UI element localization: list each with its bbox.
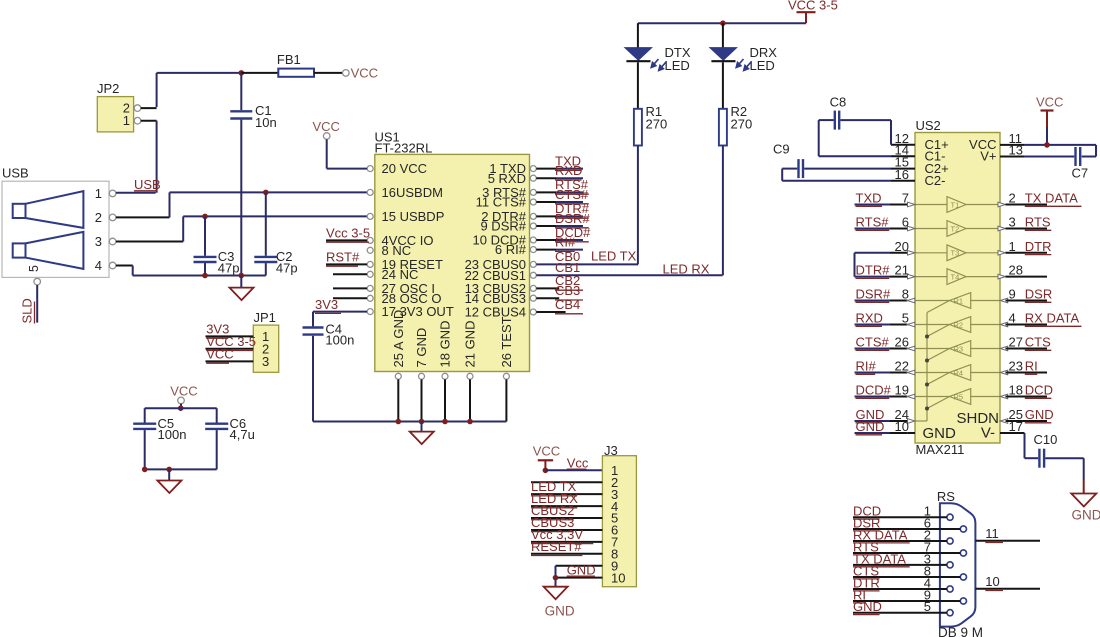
svg-text:10: 10 <box>611 570 625 585</box>
ground bus under US1 <box>313 421 506 423</box>
svg-text:26 TEST: 26 TEST <box>499 316 514 367</box>
net label RST# on US1 pin19 <box>326 250 367 267</box>
US2 pin 9 stub net DSR <box>1000 287 1052 303</box>
net label LED TX <box>591 249 637 264</box>
ferrite bead FB1 <box>277 52 314 77</box>
svg-text:GND: GND <box>1072 508 1100 523</box>
US2 transmitter T4 <box>915 269 1000 285</box>
svg-text:24 NC: 24 NC <box>382 267 419 282</box>
US2 pin 12 wire <box>841 120 916 146</box>
svg-text:RTS#: RTS# <box>856 215 890 230</box>
wire rail to FB1 <box>241 72 278 74</box>
US2 pin 8 stub net DSR# <box>855 287 915 303</box>
svg-text:10: 10 <box>985 574 999 589</box>
junction at C1 top <box>239 70 245 76</box>
svg-text:CTS#: CTS# <box>856 335 890 350</box>
svg-text:C10: C10 <box>1034 432 1058 447</box>
svg-text:Vcc: Vcc <box>567 455 589 470</box>
DB9 pin 5 wire net GND <box>853 599 947 615</box>
svg-text:DCD: DCD <box>1025 383 1053 398</box>
svg-text:LED: LED <box>665 58 690 73</box>
US2 pin 18 stub net DCD <box>1000 383 1053 399</box>
net label USB <box>134 177 161 192</box>
svg-text:DTR: DTR <box>1025 239 1052 254</box>
capacitor C7 <box>1072 147 1089 181</box>
US2 transmitter T1 <box>915 197 1000 213</box>
wire USB pin4 to ground bus <box>116 266 266 276</box>
svg-text:C2-: C2- <box>925 173 946 188</box>
svg-text:4,7u: 4,7u <box>230 427 255 442</box>
supply VCC at US1 pin20 <box>313 119 340 139</box>
net label SLD <box>20 298 35 323</box>
svg-text:R2: R2 <box>954 320 964 329</box>
svg-text:R1: R1 <box>954 296 964 305</box>
svg-text:4: 4 <box>95 258 102 273</box>
US2 pin 19 stub net DCD# <box>855 383 915 399</box>
USB pin 5 shield <box>34 278 41 285</box>
svg-text:MAX211: MAX211 <box>916 442 965 457</box>
junction VCC C5C6 <box>178 405 184 411</box>
USB pin 3 <box>95 234 116 249</box>
DB9 pin circles right column <box>960 526 966 604</box>
svg-text:8 NC: 8 NC <box>382 243 412 258</box>
svg-text:GND: GND <box>856 419 885 434</box>
DB9 pin 10 stub <box>975 574 1040 590</box>
net stub DTR# <box>536 201 589 218</box>
svg-text:5: 5 <box>27 265 41 272</box>
svg-text:VCC: VCC <box>313 119 340 134</box>
svg-text:V+: V+ <box>980 149 996 164</box>
svg-text:GND: GND <box>1025 407 1054 422</box>
jumper JP1 <box>253 310 278 372</box>
US2 pin 21 stub net DTR# <box>855 263 916 279</box>
net label Vcc 3,3V at J3 pin7 <box>531 527 593 544</box>
svg-text:VCC: VCC <box>351 66 378 81</box>
wire SLD from USB pin 5 <box>36 285 38 323</box>
net stub CB4 <box>536 297 583 314</box>
svg-text:5: 5 <box>924 599 931 614</box>
svg-text:C9: C9 <box>773 142 790 157</box>
svg-text:11 CTS#: 11 CTS# <box>476 195 527 210</box>
junction C3 at ground bus <box>202 273 208 279</box>
svg-text:DTR#: DTR# <box>856 263 891 278</box>
svg-text:VCC: VCC <box>533 444 560 459</box>
stub US1 pin24 <box>333 273 367 275</box>
svg-text:RI: RI <box>1025 359 1038 374</box>
svg-text:5 RXD: 5 RXD <box>488 171 526 186</box>
US2 pin 5 stub net RXD <box>855 311 915 327</box>
svg-text:26: 26 <box>895 335 909 350</box>
US1 left pin names <box>382 161 454 319</box>
svg-text:270: 270 <box>646 116 668 131</box>
junction bottom rail gnd <box>166 467 172 473</box>
US2 pin 22 stub net RI# <box>855 359 915 375</box>
net stub 3V3 on JP1 pin1 <box>206 322 254 339</box>
US2 pin 15 wire <box>804 155 915 170</box>
net label GND at J3 <box>567 562 596 577</box>
wire FB1 to VCC <box>314 72 343 74</box>
US2 internal junction 3 <box>925 383 929 387</box>
US2 pin 3 stub net RTS <box>998 215 1051 231</box>
svg-text:GND: GND <box>567 562 596 577</box>
svg-text:14 CBUS3: 14 CBUS3 <box>465 291 526 306</box>
net label RESET# at J3 pin8 <box>531 539 582 556</box>
svg-text:3: 3 <box>262 354 269 369</box>
wire C10 to ground <box>1045 458 1083 493</box>
net stub RI# <box>536 234 583 251</box>
svg-text:25 A GND: 25 A GND <box>391 310 406 368</box>
svg-text:270: 270 <box>731 116 753 131</box>
USB symbol horns <box>13 191 84 272</box>
US2 pin 20 stub <box>855 239 916 255</box>
net label LED RX <box>663 262 710 277</box>
DB9 pin 11 stub <box>975 526 1040 542</box>
net label Vcc 3-5 on US1 pin4 <box>326 226 370 243</box>
DB9 pin circles left column <box>947 514 953 616</box>
ground symbol under US1 <box>410 422 434 445</box>
USB connector J-USB body <box>2 166 109 278</box>
capacitor C2 47p <box>254 192 297 275</box>
US2 inside pin names bottom <box>923 410 1000 442</box>
svg-text:1: 1 <box>1009 239 1016 254</box>
IC US2 MAX211 body <box>915 118 1000 457</box>
svg-text:9 DSR#: 9 DSR# <box>480 219 526 234</box>
svg-text:DB 9 M: DB 9 M <box>938 625 983 637</box>
svg-text:T2: T2 <box>951 224 960 233</box>
svg-text:VCC: VCC <box>170 384 197 399</box>
svg-text:17: 17 <box>1009 419 1023 434</box>
svg-text:21: 21 <box>895 263 909 278</box>
junction VCC US2 <box>1044 142 1050 148</box>
ground symbol bottom right <box>1071 494 1100 523</box>
wire JP2 pin1 to USB VBUS <box>116 121 157 193</box>
svg-text:18: 18 <box>1009 383 1023 398</box>
svg-text:JP2: JP2 <box>97 81 119 96</box>
svg-text:CTS#: CTS# <box>555 187 589 202</box>
ground symbol below C5 C6 <box>157 469 181 493</box>
US1 bottom pin names <box>391 310 514 368</box>
resistor R1 270 <box>634 104 667 146</box>
svg-text:47p: 47p <box>276 260 298 275</box>
svg-text:RXD: RXD <box>555 163 582 178</box>
wire VCC to J3 pin1 <box>545 469 602 471</box>
svg-text:10n: 10n <box>255 115 277 130</box>
supply VCC at US2 <box>1036 95 1063 145</box>
svg-text:6: 6 <box>902 215 909 230</box>
US2 pin 10 stub net GND <box>855 419 916 435</box>
svg-text:6 RI#: 6 RI# <box>495 242 527 257</box>
svg-text:RX DATA: RX DATA <box>1025 311 1080 326</box>
svg-text:R4: R4 <box>954 368 964 377</box>
svg-text:1: 1 <box>123 113 130 128</box>
US2 internal junction 1 <box>925 335 929 339</box>
svg-text:DSR#: DSR# <box>555 211 590 226</box>
svg-text:CTS: CTS <box>1025 335 1051 350</box>
USB pin 1 <box>95 186 116 201</box>
LED DRX light arrows <box>736 59 751 71</box>
svg-text:DCD#: DCD# <box>856 383 892 398</box>
US2 pin 16 wire <box>782 167 915 182</box>
LED DRX <box>710 23 777 109</box>
svg-text:15 USBDP: 15 USBDP <box>382 209 445 224</box>
DB9 pin 3 wire net TX DATA <box>853 551 947 567</box>
DB9 pin 8 wire net CTS <box>853 563 960 579</box>
junction ground bus 2 <box>419 419 425 425</box>
US2 pin 25 stub net GND <box>1000 407 1053 423</box>
svg-text:LED TX: LED TX <box>591 249 637 264</box>
wire USBDM net (USB pin2 to US1 pin16) <box>116 192 367 217</box>
US2 pins 20-21 tie <box>854 253 856 277</box>
wire USBDP net (USB pin3 to US1 pin15) <box>116 216 367 241</box>
US2 transmitter T2 <box>915 221 1000 237</box>
capacitor C10 <box>1034 432 1058 468</box>
capacitor C6 4.7u <box>205 408 255 469</box>
net label CBUS3 at J3 pin6 <box>531 515 574 532</box>
junction C1 at ground bus <box>239 273 245 279</box>
US2 pin 17 wire to C10 <box>1000 419 1038 458</box>
svg-text:2: 2 <box>95 210 102 225</box>
US1 bottom pin circles <box>395 373 509 379</box>
net stub DSR# <box>536 211 590 228</box>
DB9 pin 6 wire net DSR <box>853 515 960 531</box>
IC US1 FT-232RL body <box>375 129 530 371</box>
J3 pin stubs 2-8 <box>531 482 602 554</box>
supply VCC at FB1 <box>343 66 379 81</box>
svg-text:TXD: TXD <box>856 191 882 206</box>
connector RS DB9 body <box>937 489 983 637</box>
stub US1 pin28 <box>333 297 367 299</box>
US2 inside pin names top <box>925 137 997 188</box>
svg-text:C7: C7 <box>1072 166 1089 181</box>
LED DTX <box>625 23 691 109</box>
LED DTX light arrows <box>651 59 666 71</box>
US2 internal junction 4 <box>925 407 929 411</box>
US2 pin 7 stub net TXD <box>855 191 916 207</box>
svg-text:USB: USB <box>134 177 161 192</box>
junction LED rail <box>720 20 726 26</box>
svg-text:20 VCC: 20 VCC <box>382 161 428 176</box>
svg-text:9: 9 <box>1009 287 1016 302</box>
svg-text:3: 3 <box>95 234 102 249</box>
wire C5 C6 top rail <box>145 407 217 409</box>
DB9 pin 9 wire net RI <box>853 587 960 603</box>
net stub TXD <box>536 153 583 170</box>
svg-text:USB: USB <box>2 166 29 181</box>
USB pin 2 <box>95 210 116 225</box>
net CB1 wire to LED RX <box>536 260 722 275</box>
svg-text:FT-232RL: FT-232RL <box>375 140 433 155</box>
wire R1 to CBUS0 <box>637 146 638 265</box>
svg-text:16: 16 <box>895 167 909 182</box>
svg-text:23: 23 <box>1009 359 1023 374</box>
svg-text:19: 19 <box>895 383 909 398</box>
svg-text:22: 22 <box>895 359 909 374</box>
net label Vcc at J3 pin1 <box>567 455 589 470</box>
svg-text:VCC: VCC <box>1036 95 1063 110</box>
supply VCC above C5 C6 <box>170 384 197 409</box>
DB9 pin 2 wire net RX DATA <box>853 527 947 543</box>
supply VCC at J3 <box>533 444 560 471</box>
wires US1 ground pins to bus <box>398 379 506 421</box>
US2 pin 23 stub net RI <box>1000 359 1047 375</box>
wire C5 C6 bottom rail <box>145 468 217 470</box>
svg-text:3V3: 3V3 <box>315 297 338 312</box>
wire VCC rail <box>157 72 242 74</box>
US2 transmitter T3 <box>915 245 1000 261</box>
svg-text:27: 27 <box>1009 335 1023 350</box>
junction J3 gnd <box>553 575 559 581</box>
US1 right pin circles <box>530 166 536 315</box>
junction ground bus 3 <box>442 419 448 425</box>
svg-text:DSR#: DSR# <box>856 287 891 302</box>
net stub CTS# <box>536 187 589 204</box>
net stub VCC on JP1 pin3 <box>206 347 254 364</box>
wire R2 to CBUS1 <box>722 146 724 276</box>
ground symbol below C1 <box>230 276 254 301</box>
svg-text:11: 11 <box>985 526 999 541</box>
svg-text:VCC: VCC <box>206 347 233 362</box>
svg-text:LED RX: LED RX <box>663 262 710 277</box>
net stub RXD <box>536 163 583 180</box>
US2 receiver R4 <box>915 365 1000 381</box>
capacitor C3 47p <box>194 216 240 275</box>
DB9 pin 4 wire net DTR <box>853 575 947 591</box>
US2 internal junction 2 <box>925 359 929 363</box>
svg-text:21 GND: 21 GND <box>463 321 478 368</box>
net label CBUS2 at J3 pin5 <box>531 503 574 520</box>
svg-text:18 GND: 18 GND <box>438 321 453 368</box>
svg-text:TX DATA: TX DATA <box>1025 191 1078 206</box>
US2 pin 28 stub <box>998 263 1047 279</box>
svg-text:5: 5 <box>902 311 909 326</box>
svg-text:8: 8 <box>902 287 909 302</box>
svg-text:28: 28 <box>1009 263 1023 278</box>
svg-text:LED: LED <box>750 58 775 73</box>
DB9 pin 7 wire net RTS <box>853 539 960 555</box>
wire LED VCC rail <box>638 22 806 24</box>
US2 pin 6 stub net RTS# <box>855 215 916 231</box>
US2 receiver R1 <box>915 293 1000 309</box>
US2 pin 27 stub net CTS <box>1000 335 1051 351</box>
supply VCC 3-5 top right <box>788 0 838 23</box>
wire VCC to US1 pin20 <box>327 139 367 168</box>
net stub CB3 <box>536 283 583 300</box>
US2 internal enable line <box>915 301 950 422</box>
svg-text:4: 4 <box>1009 311 1016 326</box>
svg-text:R5: R5 <box>954 392 964 401</box>
svg-text:CB3: CB3 <box>555 283 580 298</box>
svg-text:100n: 100n <box>325 333 354 348</box>
ground symbol below J3 <box>544 587 575 619</box>
net label 3V3 and wire on US1 pin17 <box>313 297 367 314</box>
capacitor C5 100n <box>133 408 186 469</box>
US2 receiver R3 <box>915 341 1000 357</box>
USB pin 4 <box>95 258 116 273</box>
US2 pin 4 stub net RX DATA <box>1000 311 1081 327</box>
resistor R2 270 <box>719 104 752 146</box>
svg-text:47p: 47p <box>218 260 240 275</box>
net stub RTS# <box>536 177 588 194</box>
US2 pin 1 stub net DTR <box>998 239 1052 255</box>
capacitor C8 <box>819 95 847 130</box>
svg-text:13: 13 <box>1009 143 1023 158</box>
US2 pin 14 wire <box>819 120 915 157</box>
svg-text:7 GND: 7 GND <box>414 328 429 368</box>
net label LED TX at J3 pin3 <box>531 479 577 496</box>
svg-text:RTS: RTS <box>1025 215 1051 230</box>
svg-text:T1: T1 <box>951 200 960 209</box>
svg-text:SLD: SLD <box>20 298 35 323</box>
svg-text:RESET#: RESET# <box>531 539 582 554</box>
svg-text:1: 1 <box>95 186 102 201</box>
US2 pin 24 stub net GND <box>855 407 916 423</box>
DB9 pin 1 wire net DCD <box>853 504 947 520</box>
svg-text:RI#: RI# <box>555 234 576 249</box>
svg-text:V-: V- <box>981 425 995 442</box>
net stub VCC 3-5 on JP1 pin2 <box>206 334 257 351</box>
svg-text:GND: GND <box>545 604 575 619</box>
capacitor C9 <box>773 142 803 179</box>
svg-text:T3: T3 <box>951 249 960 258</box>
capacitor C4 100n <box>303 312 355 422</box>
US2 receiver R5 <box>915 389 1000 405</box>
net label LED RX at J3 pin4 <box>531 491 578 508</box>
svg-text:DSR: DSR <box>1025 287 1052 302</box>
svg-text:CB4: CB4 <box>555 297 580 312</box>
svg-text:Vcc 3-5: Vcc 3-5 <box>326 226 370 241</box>
wire JP2 pin2 to VCC rail <box>141 73 157 108</box>
net CB0 wire to LED TX <box>536 249 638 264</box>
US2 pin 2 stub net TX DATA <box>998 191 1081 207</box>
svg-text:FB1: FB1 <box>277 52 301 67</box>
svg-text:10: 10 <box>895 419 909 434</box>
junction USBDM at C2 <box>263 190 269 196</box>
junction ground bus 1 <box>396 419 402 425</box>
svg-text:JP1: JP1 <box>254 310 276 325</box>
US1 right pin names <box>465 161 527 319</box>
junction bottom rail C5 <box>142 467 148 473</box>
svg-text:US2: US2 <box>916 118 941 133</box>
stub US1 pin27 <box>333 287 367 289</box>
svg-text:RS: RS <box>937 489 955 504</box>
svg-text:3: 3 <box>1009 215 1016 230</box>
svg-text:RXD: RXD <box>856 311 883 326</box>
US2 pin 26 stub net CTS# <box>855 335 915 351</box>
US2 pin 11 wire <box>1000 131 1096 157</box>
svg-text:2: 2 <box>1009 191 1016 206</box>
svg-text:16USBDM: 16USBDM <box>382 185 443 200</box>
US2 pin 13 wire <box>1000 143 1074 158</box>
svg-text:7: 7 <box>902 191 909 206</box>
US2 receiver R2 <box>915 317 1000 333</box>
junction USBDP at C3 <box>202 214 208 220</box>
svg-text:GND: GND <box>853 599 882 614</box>
J3 ground pins 9 10 <box>556 566 603 587</box>
net stub CB2 <box>536 273 583 290</box>
svg-text:T4: T4 <box>951 272 960 281</box>
svg-text:VCC 3-5: VCC 3-5 <box>788 0 838 13</box>
connector J3 body <box>602 443 636 587</box>
svg-text:100n: 100n <box>158 427 187 442</box>
junction J3 vcc <box>543 468 549 474</box>
jumper JP2 <box>97 81 141 132</box>
svg-text:RST#: RST# <box>326 250 360 265</box>
svg-text:C8: C8 <box>830 95 847 110</box>
net stub DCD# <box>536 225 591 242</box>
svg-text:GND: GND <box>923 425 957 442</box>
junction ground bus 4 <box>467 419 473 425</box>
svg-text:R3: R3 <box>954 344 964 353</box>
